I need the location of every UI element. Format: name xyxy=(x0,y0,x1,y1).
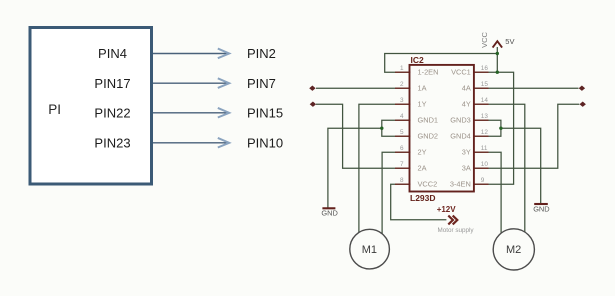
motor M2 xyxy=(493,229,534,270)
svg-text:7: 7 xyxy=(400,161,404,168)
pin 6 stub xyxy=(395,151,411,153)
svg-text:PIN7: PIN7 xyxy=(247,76,276,91)
svg-text:9: 9 xyxy=(481,177,485,184)
svg-text:6: 6 xyxy=(400,145,404,152)
wire pin11 3Y to motor M2 left xyxy=(474,152,501,247)
junction VCC net xyxy=(496,52,499,55)
pin 8 stub xyxy=(395,183,411,185)
svg-text:GND: GND xyxy=(321,209,337,218)
pin numbers left xyxy=(400,65,404,184)
svg-text:PI: PI xyxy=(48,102,61,117)
svg-text:PIN17: PIN17 xyxy=(94,76,130,91)
svg-text:+12V: +12V xyxy=(437,205,457,214)
input node B (from PIN7) xyxy=(310,102,316,107)
wire pin2 1A to input node xyxy=(316,87,410,89)
pin 7 stub xyxy=(395,167,411,169)
wire VCC node to pin9 3-4EN xyxy=(474,72,514,184)
svg-text:PIN4: PIN4 xyxy=(98,46,127,61)
wire GND3/4 to right ground xyxy=(501,128,541,203)
svg-text:PIN22: PIN22 xyxy=(94,106,130,121)
pin 14 stub xyxy=(473,103,489,105)
wire pin13 GND3 / pin12 GND4 bracket xyxy=(474,120,501,136)
svg-text:M1: M1 xyxy=(362,244,377,256)
ground symbol right xyxy=(533,204,549,213)
wire GND1/2 to left ground xyxy=(328,128,382,207)
svg-text:2: 2 xyxy=(400,81,404,88)
svg-text:GND4: GND4 xyxy=(450,132,471,141)
arrow PIN23 to PIN10 xyxy=(153,138,229,148)
pin names right column xyxy=(450,68,471,189)
svg-text:GND1: GND1 xyxy=(418,116,439,125)
pin 15 stub xyxy=(473,87,489,89)
junction left GND node xyxy=(380,127,383,130)
svg-text:PIN23: PIN23 xyxy=(94,136,130,151)
svg-text:14: 14 xyxy=(481,97,489,104)
svg-text:13: 13 xyxy=(481,113,489,120)
svg-text:1Y: 1Y xyxy=(418,100,427,109)
wire pin4 GND1 / pin5 GND2 bracket xyxy=(382,120,410,136)
svg-text:M2: M2 xyxy=(506,244,521,256)
arrow PIN17 to PIN7 xyxy=(153,78,229,88)
svg-text:4A: 4A xyxy=(462,84,471,93)
arrow PIN4 to PIN2 xyxy=(153,49,229,59)
svg-text:GND2: GND2 xyxy=(418,132,439,141)
pin 2 stub xyxy=(395,87,411,89)
svg-text:16: 16 xyxy=(481,65,489,72)
svg-text:3: 3 xyxy=(400,97,404,104)
svg-text:GND3: GND3 xyxy=(450,116,471,125)
wire pin16 VCC1 to VCC symbol xyxy=(474,47,497,72)
supply VCC arrow symbol xyxy=(493,41,503,47)
svg-text:4: 4 xyxy=(400,113,404,120)
pin 16 stub xyxy=(473,71,489,73)
IC U1 L293D body xyxy=(410,65,474,192)
pin 9 stub xyxy=(473,183,489,185)
wire pin1 1-2EN to VCC net xyxy=(385,54,498,73)
wire pin3 1Y to motor M1 left xyxy=(359,104,410,247)
wire pin8 VCC2 to +12V supply xyxy=(391,184,447,220)
pin 11 stub xyxy=(473,151,489,153)
svg-text:1: 1 xyxy=(400,65,404,72)
pin 3 stub xyxy=(395,103,411,105)
supply +12V arrow symbol xyxy=(448,216,457,225)
svg-text:VCC1: VCC1 xyxy=(451,68,471,77)
svg-text:VCC: VCC xyxy=(480,31,489,47)
pin 10 stub xyxy=(473,167,489,169)
svg-text:5V: 5V xyxy=(505,37,514,46)
svg-text:2A: 2A xyxy=(418,164,427,173)
input node C (from PIN15 row) xyxy=(579,86,585,91)
svg-text:12: 12 xyxy=(481,129,489,136)
wire pin15 4A to input node right xyxy=(474,87,579,89)
pin 1 stub xyxy=(395,71,411,73)
PI box xyxy=(30,28,152,185)
pin names left column xyxy=(418,68,439,189)
svg-text:VCC2: VCC2 xyxy=(418,180,438,189)
svg-text:3A: 3A xyxy=(462,164,471,173)
op IC pin stubs xyxy=(395,72,489,184)
wire pin6 2Y to motor M1 right xyxy=(382,152,409,247)
svg-text:IC2: IC2 xyxy=(411,55,425,65)
svg-text:10: 10 xyxy=(481,161,489,168)
svg-text:GND: GND xyxy=(533,204,549,213)
svg-text:11: 11 xyxy=(481,145,488,152)
svg-text:5: 5 xyxy=(400,129,404,136)
junction pin16 node xyxy=(496,71,499,74)
svg-text:PIN10: PIN10 xyxy=(247,136,283,151)
wire input node to pin7 2A xyxy=(316,104,410,168)
ground symbol left xyxy=(321,208,337,217)
svg-text:15: 15 xyxy=(481,81,489,88)
wire input node to pin10 3A xyxy=(474,104,579,168)
pin 5 stub xyxy=(395,135,411,137)
pin 13 stub xyxy=(473,119,489,121)
svg-text:3-4EN: 3-4EN xyxy=(450,180,471,189)
svg-text:1A: 1A xyxy=(418,84,427,93)
pin 12 stub xyxy=(473,135,489,137)
svg-text:1-2EN: 1-2EN xyxy=(418,68,439,77)
pin numbers right xyxy=(481,65,489,184)
svg-text:8: 8 xyxy=(400,177,404,184)
input node D (from PIN10 row) xyxy=(580,102,586,107)
svg-text:PIN2: PIN2 xyxy=(247,46,276,61)
arrow PIN22 to PIN15 xyxy=(153,108,229,118)
svg-text:Motor supply: Motor supply xyxy=(438,227,475,234)
junction right GND node xyxy=(499,127,502,130)
input node A (from PIN2) xyxy=(309,86,315,91)
svg-text:PIN15: PIN15 xyxy=(247,106,283,121)
pin 4 stub xyxy=(395,119,411,121)
motor M1 xyxy=(350,229,390,269)
svg-text:2Y: 2Y xyxy=(418,148,427,157)
svg-text:L293D: L293D xyxy=(410,193,436,203)
svg-text:3Y: 3Y xyxy=(462,148,471,157)
wire pin14 4Y to motor M2 right xyxy=(474,104,525,247)
svg-text:4Y: 4Y xyxy=(462,100,471,109)
